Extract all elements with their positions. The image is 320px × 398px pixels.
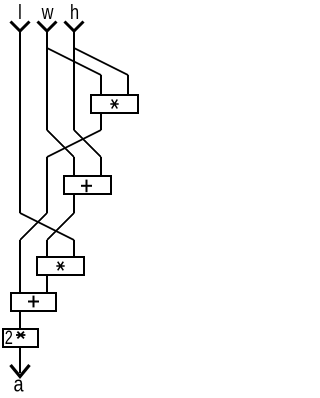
- wire h diagonal to box2 right input: [74, 130, 101, 157]
- wire h branch stub into box1: [127, 75, 129, 95]
- wire l vertical: [19, 31, 21, 213]
- operator * of U5: [16, 332, 25, 339]
- operator * of U1: [110, 100, 118, 109]
- output arrowhead: [11, 365, 30, 377]
- wire box1 output vertical to box4 left input: [19, 240, 21, 293]
- wire box1 output stub: [100, 113, 102, 130]
- wire w branch stub into box1: [100, 75, 102, 95]
- wire box1 output vertical: [46, 157, 48, 213]
- input arrow w: [38, 22, 57, 32]
- wire box2 output stub: [73, 194, 75, 213]
- wire box1 output diagonal down-left: [47, 130, 101, 157]
- operator + of U2: [81, 180, 92, 193]
- input arrow h: [65, 22, 84, 32]
- wire h vertical: [73, 31, 75, 130]
- svg-text:a: a: [13, 373, 24, 397]
- wire w stub into box2: [73, 157, 75, 176]
- doubler box U5 (2*): [3, 329, 38, 347]
- wire l stub into box3: [73, 240, 75, 257]
- adder box U2 (w+h): [64, 176, 111, 194]
- multiplier box U1 (w*h): [91, 95, 138, 113]
- svg-text:2: 2: [5, 326, 13, 349]
- svg-text:w: w: [41, 0, 54, 23]
- operator * of U3: [56, 262, 64, 271]
- operator + of U4: [28, 296, 39, 308]
- wire box3 output stub to box4 right input: [46, 275, 48, 293]
- wire l diagonal to box3 right input: [20, 213, 74, 240]
- wire box2 output diagonal down-left: [47, 213, 74, 240]
- multiplier box U3 (l*(w+h)): [37, 257, 84, 275]
- adder box U4 (sum): [11, 293, 56, 311]
- wire h branch diagonal to box1 right input: [74, 48, 128, 75]
- wire w vertical: [46, 31, 48, 130]
- wire box2 output vertical to box3 left input: [46, 240, 48, 257]
- wire box1 output diagonal 2: [20, 213, 47, 240]
- svg-text:l: l: [18, 0, 22, 23]
- input arrow l: [11, 22, 30, 32]
- wire box4 output stub: [19, 311, 21, 329]
- wire h stub into box2: [100, 157, 102, 176]
- wire w diagonal to box2 left input: [47, 130, 74, 157]
- svg-text:h: h: [70, 0, 79, 23]
- wire w branch diagonal to box1 left input: [47, 48, 101, 75]
- wire output a: [19, 347, 21, 373]
